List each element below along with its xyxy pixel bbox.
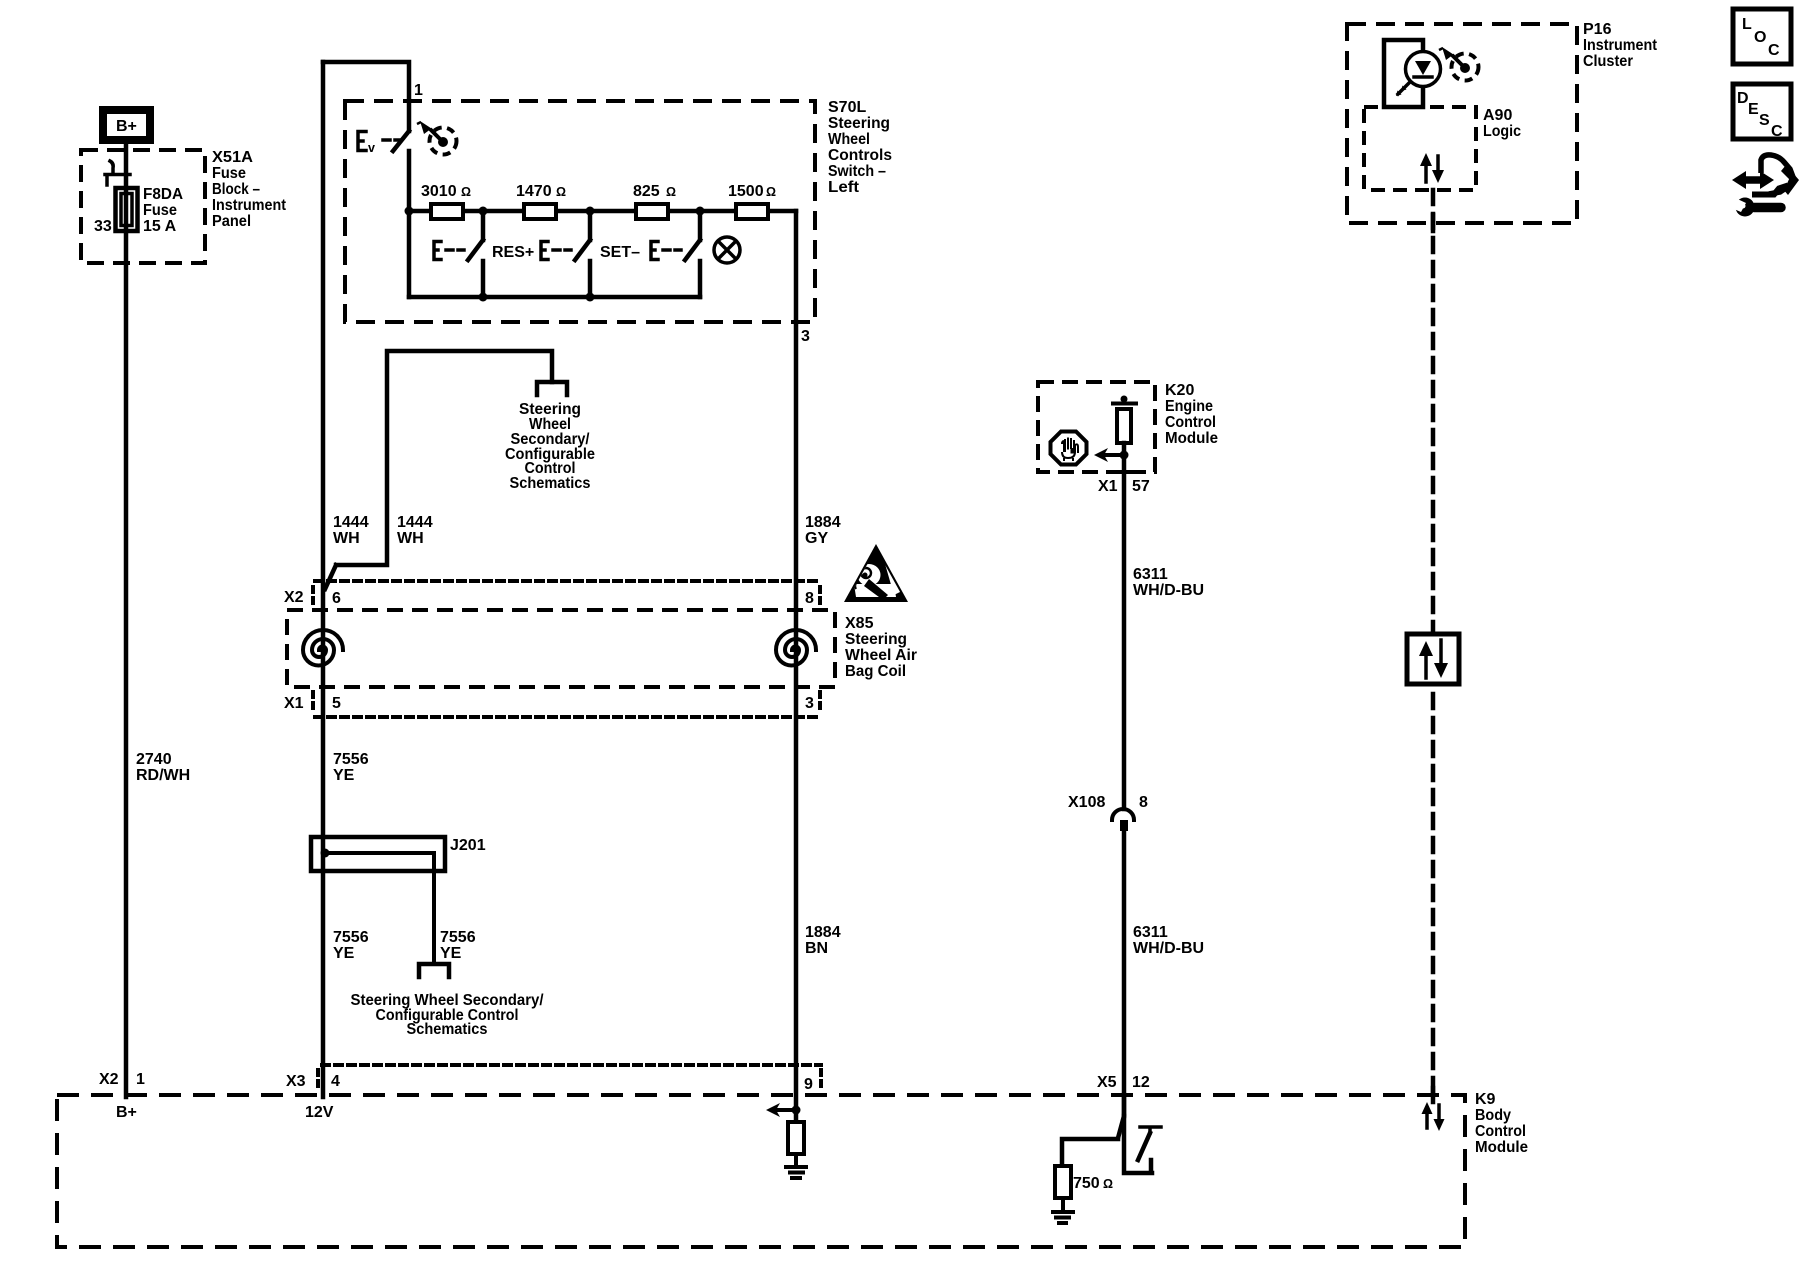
- wire label 7556 YE lower right: [440, 929, 476, 962]
- X85 airbag coil box: [287, 610, 835, 687]
- svg-text:C: C: [1768, 42, 1780, 59]
- svg-text:X2: X2: [99, 1071, 119, 1088]
- svg-text:WH/D-BU: WH/D-BU: [1133, 582, 1204, 599]
- wire top jog to switch: [323, 62, 409, 131]
- K20 stop octagon hand icon: [1051, 432, 1087, 465]
- switch SET-: [541, 211, 590, 297]
- connector band X2 left dots: [311, 587, 315, 607]
- BCM sense switch: [1124, 1116, 1161, 1173]
- svg-text:7556: 7556: [333, 929, 369, 946]
- BCM 750 ohm resistor: [1055, 1166, 1071, 1198]
- power B+ terminal: [103, 110, 150, 140]
- A90 logic box: [1364, 107, 1476, 190]
- svg-text:1444: 1444: [397, 514, 433, 531]
- svg-text:Block –: Block –: [212, 181, 260, 198]
- svg-text:9: 9: [804, 1076, 813, 1093]
- A90 serial arrows: [1420, 153, 1444, 183]
- wire label 1444 WH right: [397, 514, 433, 547]
- S70L left drop wire: [407, 211, 412, 297]
- svg-text:8: 8: [1139, 794, 1148, 811]
- svg-text:X51A: X51A: [212, 149, 253, 166]
- off-page connector bracket bottom: [419, 964, 449, 977]
- svg-text:1: 1: [136, 1071, 145, 1088]
- off-page connector bracket top: [537, 382, 567, 395]
- wire label 6311 WH/D-BU lower: [1133, 924, 1204, 957]
- svg-text:RES+: RES+: [492, 244, 534, 261]
- svg-text:Steering: Steering: [845, 631, 907, 648]
- svg-text:F8DA: F8DA: [143, 186, 183, 203]
- svg-text:6311: 6311: [1133, 924, 1168, 941]
- svg-text:1470: 1470: [516, 183, 552, 200]
- K20 internal pull-up resistor: [1113, 396, 1136, 444]
- svg-text:12V: 12V: [305, 1104, 334, 1121]
- svg-text:E: E: [1748, 101, 1759, 118]
- svg-text:6311: 6311: [1133, 566, 1168, 583]
- K9 box crossing tick serial: [1431, 1088, 1436, 1102]
- svg-text:5: 5: [332, 695, 341, 712]
- svg-text:8: 8: [805, 590, 814, 607]
- fuse block X51A box: [81, 150, 205, 263]
- resistor 3010 ohm: [431, 204, 463, 219]
- svg-text:B+: B+: [116, 118, 137, 135]
- X85 label: [845, 615, 917, 680]
- svg-text:WH: WH: [333, 530, 360, 547]
- node rail junction E: [479, 293, 488, 302]
- svg-text:SET–: SET–: [600, 244, 640, 261]
- ground symbol right: [786, 1167, 806, 1178]
- svg-text:Panel: Panel: [212, 213, 251, 230]
- resistor 825 ohm: [636, 204, 668, 219]
- svg-text:X85: X85: [845, 615, 874, 632]
- svg-text:RD/WH: RD/WH: [136, 767, 190, 784]
- connector terminal pin in fuse block: [105, 161, 130, 185]
- svg-text:O: O: [1754, 29, 1766, 46]
- svg-text:Controls: Controls: [828, 147, 892, 164]
- K9 label: [1475, 1091, 1528, 1156]
- svg-text:15 A: 15 A: [143, 218, 177, 235]
- svg-text:1: 1: [414, 82, 423, 99]
- wire serial data dashed to BCM: [1431, 190, 1436, 1097]
- svg-text:Instrument: Instrument: [1583, 37, 1658, 54]
- P16 label: [1583, 21, 1658, 70]
- svg-text:7556: 7556: [440, 929, 476, 946]
- svg-text:1884: 1884: [805, 514, 841, 531]
- airbag coil left spiral: [303, 630, 343, 666]
- serial data symbol box: [1407, 634, 1459, 684]
- K20 signal arrow: [1094, 448, 1129, 462]
- BCM serial arrows: [1422, 1102, 1445, 1131]
- wire branch 1444 to secondary controls: [325, 351, 552, 589]
- S70L bottom rail wire: [409, 295, 700, 300]
- wire label 7556 YE lower left: [333, 929, 369, 962]
- svg-text:S70L: S70L: [828, 99, 866, 116]
- svg-text:Module: Module: [1165, 430, 1218, 447]
- A90 label: [1483, 107, 1521, 140]
- node bus junction D: [696, 207, 705, 216]
- svg-text:Ω: Ω: [556, 185, 566, 199]
- wire label 7556 YE upper: [333, 751, 369, 784]
- svg-text:Cluster: Cluster: [1583, 53, 1633, 70]
- wire W1 B+ feed vertical: [124, 144, 129, 1097]
- svg-text:C: C: [1771, 123, 1783, 140]
- svg-text:X1: X1: [284, 695, 304, 712]
- svg-text:YE: YE: [440, 945, 462, 962]
- svg-text:K20: K20: [1165, 382, 1194, 399]
- svg-text:L: L: [1742, 16, 1752, 33]
- switch RES+: [434, 211, 483, 297]
- svg-text:Instrument: Instrument: [212, 197, 287, 214]
- connector band X1 right dots: [818, 692, 822, 712]
- svg-text:X5: X5: [1097, 1074, 1117, 1091]
- svg-text:Module: Module: [1475, 1139, 1528, 1156]
- connector band X1 left dots: [311, 692, 315, 712]
- wire label 6311 WH/D-BU upper: [1133, 566, 1204, 599]
- wire K20 output 6311 vertical: [1122, 443, 1127, 809]
- wire label 1884 BN: [805, 924, 841, 957]
- svg-text:Left: Left: [828, 179, 860, 196]
- resistor 1500 ohm: [736, 204, 768, 219]
- cruise gauge icon: [417, 121, 457, 155]
- P16 box crossing tick: [1431, 215, 1436, 231]
- switch lamp leg: [651, 211, 700, 297]
- svg-text:Engine: Engine: [1165, 398, 1213, 415]
- svg-text:Ω: Ω: [666, 185, 676, 199]
- connector band bottom right dots: [819, 1070, 823, 1092]
- S70L resistor bus wire: [409, 209, 796, 214]
- svg-text:33: 33: [94, 218, 112, 235]
- pin X2 1 labels at BCM: [99, 1071, 145, 1088]
- node bus junction A: [405, 207, 414, 216]
- connector band X1 bottom dotted: [315, 715, 822, 719]
- node rail junction F: [586, 293, 595, 302]
- svg-text:Schematics: Schematics: [510, 475, 591, 492]
- K9 body control module box: [57, 1095, 1465, 1247]
- svg-text:X3: X3: [286, 1073, 306, 1090]
- svg-text:BN: BN: [805, 940, 828, 957]
- BCM termination resistor for 1884: [788, 1122, 804, 1154]
- svg-text:12: 12: [1132, 1074, 1150, 1091]
- svg-text:Wheel: Wheel: [828, 131, 870, 148]
- svg-text:57: 57: [1132, 478, 1150, 495]
- K20 box crossing tick: [1114, 470, 1134, 474]
- svg-text:6: 6: [332, 590, 341, 607]
- svg-text:7556: 7556: [333, 751, 369, 768]
- S70L box: [345, 101, 815, 322]
- svg-text:1500: 1500: [728, 183, 764, 200]
- P16 instrument cluster box: [1347, 24, 1577, 223]
- svg-text:3: 3: [805, 695, 814, 712]
- svg-text:WH/D-BU: WH/D-BU: [1133, 940, 1204, 957]
- connector band bottom dotted top line: [322, 1063, 821, 1067]
- P16 gauge icon: [1439, 47, 1479, 81]
- svg-text:2740: 2740: [136, 751, 172, 768]
- icon LOC box: [1733, 9, 1791, 64]
- wire label 1444 WH left: [333, 514, 369, 547]
- svg-text:GY: GY: [805, 530, 828, 547]
- svg-text:YE: YE: [333, 767, 355, 784]
- svg-text:Ω: Ω: [1103, 1177, 1113, 1191]
- svg-text:D: D: [1737, 90, 1749, 107]
- K20 label: [1165, 382, 1218, 447]
- icon DESC box: [1733, 84, 1791, 140]
- svg-text:750: 750: [1073, 1175, 1100, 1192]
- resistor 1470 ohm: [524, 204, 556, 219]
- svg-text:4: 4: [331, 1073, 340, 1090]
- svg-text:1884: 1884: [805, 924, 841, 941]
- splice pack J201: [311, 837, 445, 963]
- icon settings arrow with wrench: [1729, 155, 1799, 217]
- svg-text:X108: X108: [1068, 794, 1105, 811]
- wire W2 main steering wheel feed vertical: [321, 62, 326, 1097]
- connector band X2 right dots: [818, 587, 822, 607]
- svg-text:J201: J201: [450, 837, 486, 854]
- svg-text:X1: X1: [1098, 478, 1118, 495]
- svg-text:WH: WH: [397, 530, 424, 547]
- svg-text:Fuse: Fuse: [143, 202, 177, 219]
- svg-text:Control: Control: [1165, 414, 1216, 431]
- BCM ground arrow for 1884: [766, 1103, 801, 1117]
- ground symbol left: [1053, 1212, 1073, 1223]
- svg-text:1444: 1444: [333, 514, 369, 531]
- svg-text:3010: 3010: [421, 183, 457, 200]
- wire label 1884 GY: [805, 514, 841, 547]
- fuse value label F8DA Fuse 15 A: [143, 186, 183, 235]
- svg-text:Ω: Ω: [766, 185, 776, 199]
- S70L label: [828, 99, 892, 196]
- svg-text:Bag Coil: Bag Coil: [845, 663, 906, 680]
- svg-text:P16: P16: [1583, 21, 1612, 38]
- lamp symbol: [714, 237, 740, 263]
- wire 750 to ground: [1061, 1198, 1065, 1212]
- connector band bottom left dots: [316, 1070, 320, 1092]
- svg-text:Ω: Ω: [461, 185, 471, 199]
- svg-text:Control: Control: [1475, 1123, 1526, 1140]
- wire S70L output right vertical 1884: [794, 211, 799, 1122]
- note steering wheel secondary schematics bottom: [351, 992, 545, 1038]
- svg-text:Wheel Air: Wheel Air: [845, 647, 917, 664]
- svg-text:Steering: Steering: [828, 115, 890, 132]
- svg-text:YE: YE: [333, 945, 355, 962]
- svg-text:3: 3: [801, 328, 810, 345]
- P16 LED indicator loop: [1384, 40, 1441, 107]
- airbag warning triangle: [844, 544, 908, 602]
- cruise on/off switch Ev: [358, 131, 409, 211]
- inline connector X108 pin 8: [1112, 809, 1134, 831]
- svg-text:S: S: [1759, 112, 1770, 129]
- svg-text:B+: B+: [116, 1104, 137, 1121]
- wire label 2740 RD/WH: [136, 751, 190, 784]
- fuse block X51A label: [212, 149, 287, 230]
- node bus junction B: [479, 207, 488, 216]
- svg-text:Schematics: Schematics: [407, 1021, 488, 1038]
- svg-text:X2: X2: [284, 589, 304, 606]
- wire resistor to ground: [794, 1154, 798, 1167]
- svg-text:Fuse: Fuse: [212, 165, 246, 182]
- K20 engine control module box: [1038, 382, 1155, 472]
- svg-text:A90: A90: [1483, 107, 1512, 124]
- note steering wheel secondary schematics top: [505, 401, 595, 492]
- connector band X2 top dotted: [315, 579, 822, 583]
- svg-text:825: 825: [633, 183, 660, 200]
- svg-text:v: v: [368, 141, 375, 155]
- svg-text:Logic: Logic: [1483, 123, 1521, 140]
- svg-text:Switch –: Switch –: [828, 163, 886, 180]
- wire 6311 lower vertical: [1122, 831, 1127, 1116]
- svg-text:K9: K9: [1475, 1091, 1496, 1108]
- svg-text:Body: Body: [1475, 1107, 1511, 1124]
- fuse F8DA 15A: [116, 188, 138, 231]
- node bus junction C: [586, 207, 595, 216]
- BCM input network for 6311: [1062, 1095, 1124, 1166]
- airbag coil right spiral: [776, 630, 816, 666]
